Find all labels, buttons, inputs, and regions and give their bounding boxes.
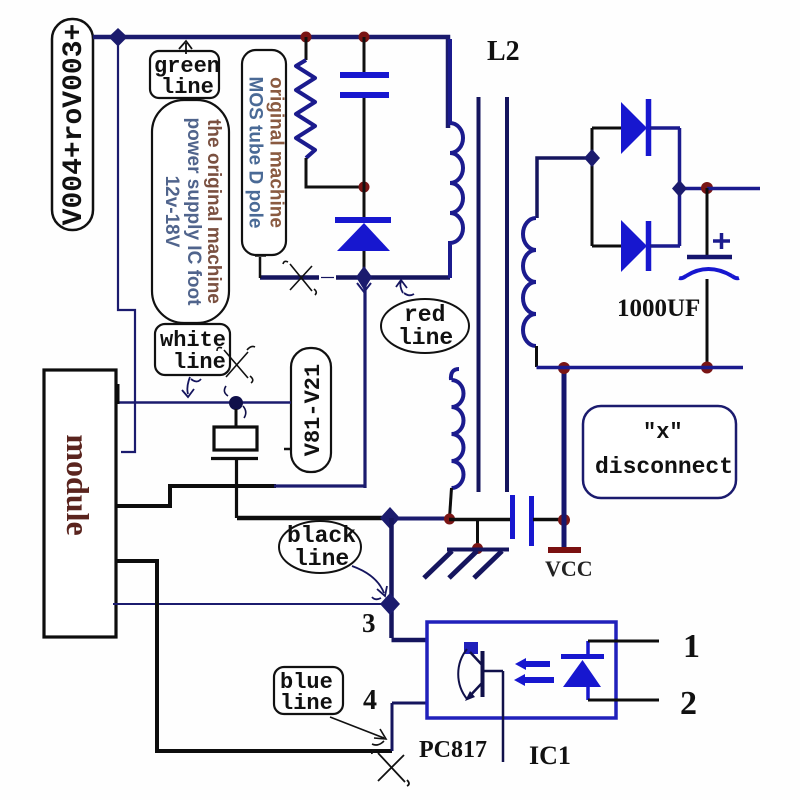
VCC terminal [548, 547, 581, 553]
capacitor 1000UF [679, 188, 739, 367]
svg-text:line: line [161, 75, 214, 100]
node cap bottom [701, 362, 713, 374]
crystal component [211, 409, 258, 518]
wire vertical from node down with jog [118, 44, 135, 452]
primary winding L2 [450, 39, 463, 278]
diode snubber [335, 187, 391, 277]
wire pin4 riser [392, 703, 427, 751]
capacitor snubber [340, 37, 389, 187]
label red line [381, 299, 469, 353]
wire node to transformer [396, 517, 449, 521]
transformer core line left [477, 97, 481, 492]
svg-text:1000UF: 1000UF [617, 295, 700, 322]
label blue line [274, 667, 343, 716]
node secondary to rail [584, 149, 600, 167]
secondary winding [523, 218, 536, 346]
svg-text:PC817: PC817 [419, 737, 487, 763]
ground tap [476, 520, 479, 548]
svg-text:line: line [173, 350, 226, 375]
svg-text:4: 4 [363, 685, 377, 716]
x mark on D pole line [283, 261, 316, 295]
arrow to 12V wire [182, 377, 201, 397]
diode rail left [591, 128, 594, 246]
wire top bus [93, 37, 448, 128]
label green line [150, 51, 220, 100]
label white line [155, 324, 230, 375]
label the original machine power supply IC foot 12v-18V [152, 100, 229, 323]
node junction C top [359, 32, 370, 43]
wire 12V-18V line [117, 401, 291, 404]
resistor R snubber [296, 37, 364, 187]
aux winding bottom lead [450, 488, 452, 518]
wire module sense line [113, 603, 384, 605]
wire blue segment to vertical riser [274, 278, 365, 488]
svg-text:power supply IC foot: power supply IC foot [183, 118, 204, 307]
op-to-coupler IC1 box [427, 622, 616, 718]
capacitor coupling plate left [510, 495, 515, 539]
wire bottom return [537, 366, 744, 370]
label x disconnect [583, 406, 736, 498]
secondary winding top lead [537, 158, 590, 218]
node output top [701, 182, 713, 194]
aux winding open curl [451, 369, 459, 380]
light arrows [514, 658, 554, 686]
LED D3 [561, 641, 604, 700]
x mark at pin4 [372, 750, 409, 786]
wire bottom to cap [449, 518, 511, 522]
node junction R top [301, 32, 312, 43]
svg-text:V004+roV003+: V004+roV003+ [59, 24, 90, 226]
wire pin 2 [588, 699, 659, 702]
node on 12V wire [224, 386, 245, 418]
svg-text:IC1: IC1 [529, 741, 571, 770]
node D pole junction [356, 266, 372, 292]
arrow black line to node 3 [352, 566, 387, 599]
node ground [472, 543, 483, 554]
node VCC riser [558, 514, 570, 526]
label original machine MOS tube D pole [242, 50, 287, 255]
ground symbol [424, 550, 509, 579]
svg-text:12v-18V: 12v-18V [161, 176, 182, 248]
wire output top [707, 187, 760, 191]
node transformer bottom [444, 514, 455, 525]
wire diode join [679, 128, 707, 246]
wire pin 1 [588, 640, 659, 643]
node 3 [380, 593, 400, 615]
wire VCC riser [562, 369, 567, 548]
svg-text:the original machine: the original machine [203, 119, 224, 304]
svg-text:3: 3 [362, 608, 376, 638]
arrow red line pointer [396, 280, 414, 295]
svg-text:1: 1 [683, 628, 700, 665]
node diode join [672, 180, 687, 197]
svg-text:2: 2 [680, 685, 697, 722]
node R bottom [359, 182, 370, 193]
label +300Vor+400V [52, 19, 93, 230]
label 12V-18V [284, 348, 331, 472]
diode D1 [592, 99, 680, 156]
svg-text:VCC: VCC [545, 556, 593, 581]
svg-text:line: line [294, 546, 349, 572]
secondary bottom lead [535, 346, 538, 367]
svg-text:″x″: ″x″ [643, 420, 683, 445]
arrow green line to bus [179, 41, 192, 54]
svg-text:MOS tube D pole: MOS tube D pole [245, 77, 266, 229]
svg-text:disconnect: disconnect [595, 454, 733, 480]
aux winding [452, 380, 464, 488]
svg-text:module: module [60, 434, 96, 535]
svg-text:original machine: original machine [266, 77, 287, 228]
transformer core line right [505, 97, 509, 492]
phototransistor Q [458, 642, 503, 762]
module stub [116, 384, 120, 404]
wire module to IC foot net [116, 486, 276, 506]
arrow blue line to pin4 [330, 717, 386, 745]
diode D2 [592, 220, 680, 272]
svg-text:line: line [280, 691, 333, 716]
wire cap to VCC [533, 518, 564, 522]
svg-text:L2: L2 [487, 36, 520, 67]
x mark white line [217, 346, 255, 383]
svg-text:line: line [398, 325, 453, 351]
wire vertical to opto pin3 [392, 518, 428, 640]
label black line [279, 521, 361, 573]
svg-text:V81-V21: V81-V21 [301, 364, 326, 456]
wire black bottom net [237, 516, 388, 521]
module box [44, 370, 116, 637]
capacitor coupling plate right [529, 496, 534, 546]
node at 390,518 [380, 507, 400, 529]
wire MOS D pole line [255, 256, 450, 283]
node at 118,37 [109, 28, 128, 47]
wire module to opto pin4 [116, 561, 392, 751]
node VCC top [558, 362, 570, 374]
